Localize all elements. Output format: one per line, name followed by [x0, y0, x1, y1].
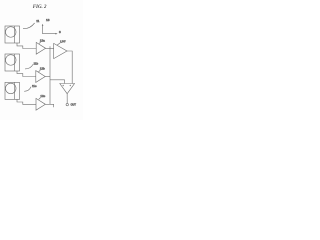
leader to label 11: [23, 23, 35, 29]
wire A2 to bus: [45, 76, 50, 78]
svg-text:11b: 11b: [34, 61, 39, 65]
microphone M2 diaphragm line: [14, 54, 16, 71]
microphone M2 box: [5, 54, 20, 71]
wire M3 to A3: [17, 99, 36, 104]
bus wire vertical: [49, 46, 51, 104]
arrowhead up: [42, 24, 44, 26]
microphone M3 diaphragm line: [14, 82, 16, 99]
svg-text:13: 13: [46, 18, 50, 22]
leader tick A1: [39, 42, 41, 44]
svg-text:11: 11: [36, 19, 39, 23]
svg-text:12c: 12c: [40, 94, 45, 98]
svg-text:OUT: OUT: [71, 103, 77, 106]
plus mark input 2: [70, 85, 72, 86]
leader to label 11c: [24, 87, 31, 92]
svg-text:3: 3: [59, 30, 61, 34]
svg-text:LPF: LPF: [60, 39, 66, 43]
microphone M3 box: [5, 82, 20, 99]
amplifier A3: [36, 98, 45, 110]
svg-text:11c: 11c: [32, 84, 37, 88]
low-pass filter U1: [54, 43, 67, 58]
plus mark input 1: [62, 85, 64, 86]
leader tick A3: [39, 98, 41, 100]
amplifier A1: [36, 42, 45, 54]
arrowhead right: [55, 33, 57, 35]
microphone M1 box: [5, 26, 20, 43]
microphone M2 capsule circle: [6, 55, 17, 66]
leader tick U1: [57, 43, 60, 46]
summing amplifier U2: [60, 84, 75, 94]
wire A3 to bus: [45, 103, 50, 105]
wire U1 to summing amp: [67, 51, 72, 84]
wire M2 to A2: [17, 71, 36, 77]
svg-text:FIG. 2: FIG. 2: [33, 5, 47, 10]
bus tail wire: [50, 104, 54, 107]
svg-text:12b: 12b: [40, 67, 45, 71]
wire A1 to LPF: [46, 48, 54, 50]
tap wire to summing amp: [50, 80, 65, 84]
svg-text:12a: 12a: [40, 38, 45, 42]
wire M1 to A1: [17, 43, 36, 49]
leader to label 11b: [25, 64, 33, 69]
microphone M3 capsule circle: [6, 83, 17, 94]
microphone M1 capsule circle: [6, 27, 17, 38]
leader tick A2: [39, 70, 41, 72]
output terminal: [66, 103, 68, 105]
output wire: [66, 94, 68, 104]
amplifier A2: [36, 71, 45, 83]
direction arrow: [43, 25, 57, 34]
microphone M1 diaphragm line: [14, 26, 16, 43]
